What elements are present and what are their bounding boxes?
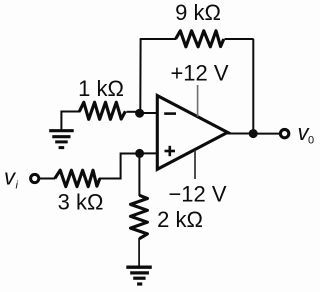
- wire: +12 V supply lead: [197, 85, 199, 117]
- node: non-inverting input junction: [135, 149, 144, 158]
- wire: v_i terminal to 3 kΩ: [39, 178, 55, 180]
- svg-text:0: 0: [308, 135, 314, 147]
- resistor 1 kΩ: [80, 102, 126, 119]
- svg-text:3 kΩ: 3 kΩ: [58, 190, 104, 215]
- wire: inverting node to op-amp minus pin: [140, 112, 159, 114]
- ground (bottom, under 2 kΩ): [126, 267, 152, 284]
- ground (left, at 1 kΩ input): [49, 131, 73, 148]
- op-amp plus pin marking: [165, 146, 176, 156]
- resistor 3 kΩ: [55, 170, 100, 186]
- svg-text:+12 V: +12 V: [170, 61, 228, 86]
- wire: top rail right segment: [225, 38, 254, 40]
- wire: op-amp output to output node: [228, 133, 254, 135]
- wire: output node to v_0 terminal: [253, 133, 280, 135]
- wire: non-inverting node down to 2 kΩ: [138, 153, 140, 196]
- wire: left ground riser and segment to 1 kΩ: [61, 112, 80, 130]
- terminal: input v_i open circle: [31, 174, 39, 182]
- op-amp minus pin marking: [164, 112, 176, 115]
- resistor 9 kΩ (feedback): [176, 31, 224, 47]
- svg-text:−12 V: −12 V: [168, 182, 226, 207]
- svg-text:1 kΩ: 1 kΩ: [78, 76, 124, 101]
- wire: −12 V supply lead: [194, 151, 196, 180]
- wire: 3 kΩ up to non-inverting node: [99, 154, 140, 179]
- node: inverting input junction: [135, 109, 144, 118]
- node: output junction: [249, 129, 258, 138]
- wire: top rail left segment: [140, 38, 176, 40]
- svg-text:2 kΩ: 2 kΩ: [157, 207, 203, 232]
- resistor 2 kΩ (vertical): [131, 195, 148, 238]
- op-amp U1 triangle: [157, 96, 227, 170]
- wire: feedback loop left vertical (inverting node up to top rail): [139, 39, 141, 113]
- wire: non-inverting node to op-amp plus pin: [140, 152, 159, 154]
- wire: feedback loop right vertical (top rail down to output node): [252, 39, 254, 134]
- wire: 1 kΩ to inverting node: [127, 111, 140, 113]
- terminal: output v_0 open circle: [280, 129, 288, 137]
- svg-text:9 kΩ: 9 kΩ: [175, 0, 221, 25]
- wire: 2 kΩ down to bottom ground: [138, 238, 140, 267]
